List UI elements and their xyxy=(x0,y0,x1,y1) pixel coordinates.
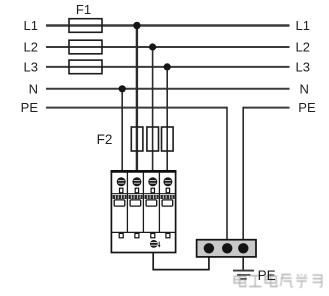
svg-text:L2: L2 xyxy=(296,40,310,55)
svg-text:F1: F1 xyxy=(76,2,91,17)
svg-text:L3: L3 xyxy=(24,60,38,75)
svg-text:PE: PE xyxy=(21,100,39,115)
svg-text:L1: L1 xyxy=(24,18,38,33)
svg-text:N: N xyxy=(29,81,38,96)
svg-text:L1: L1 xyxy=(296,18,310,33)
svg-text:L2: L2 xyxy=(24,40,38,55)
svg-text:F2: F2 xyxy=(97,132,113,147)
svg-text:PE: PE xyxy=(298,100,316,115)
svg-text:N: N xyxy=(300,81,309,96)
svg-text:L3: L3 xyxy=(296,60,310,75)
svg-text:PE: PE xyxy=(258,268,276,283)
